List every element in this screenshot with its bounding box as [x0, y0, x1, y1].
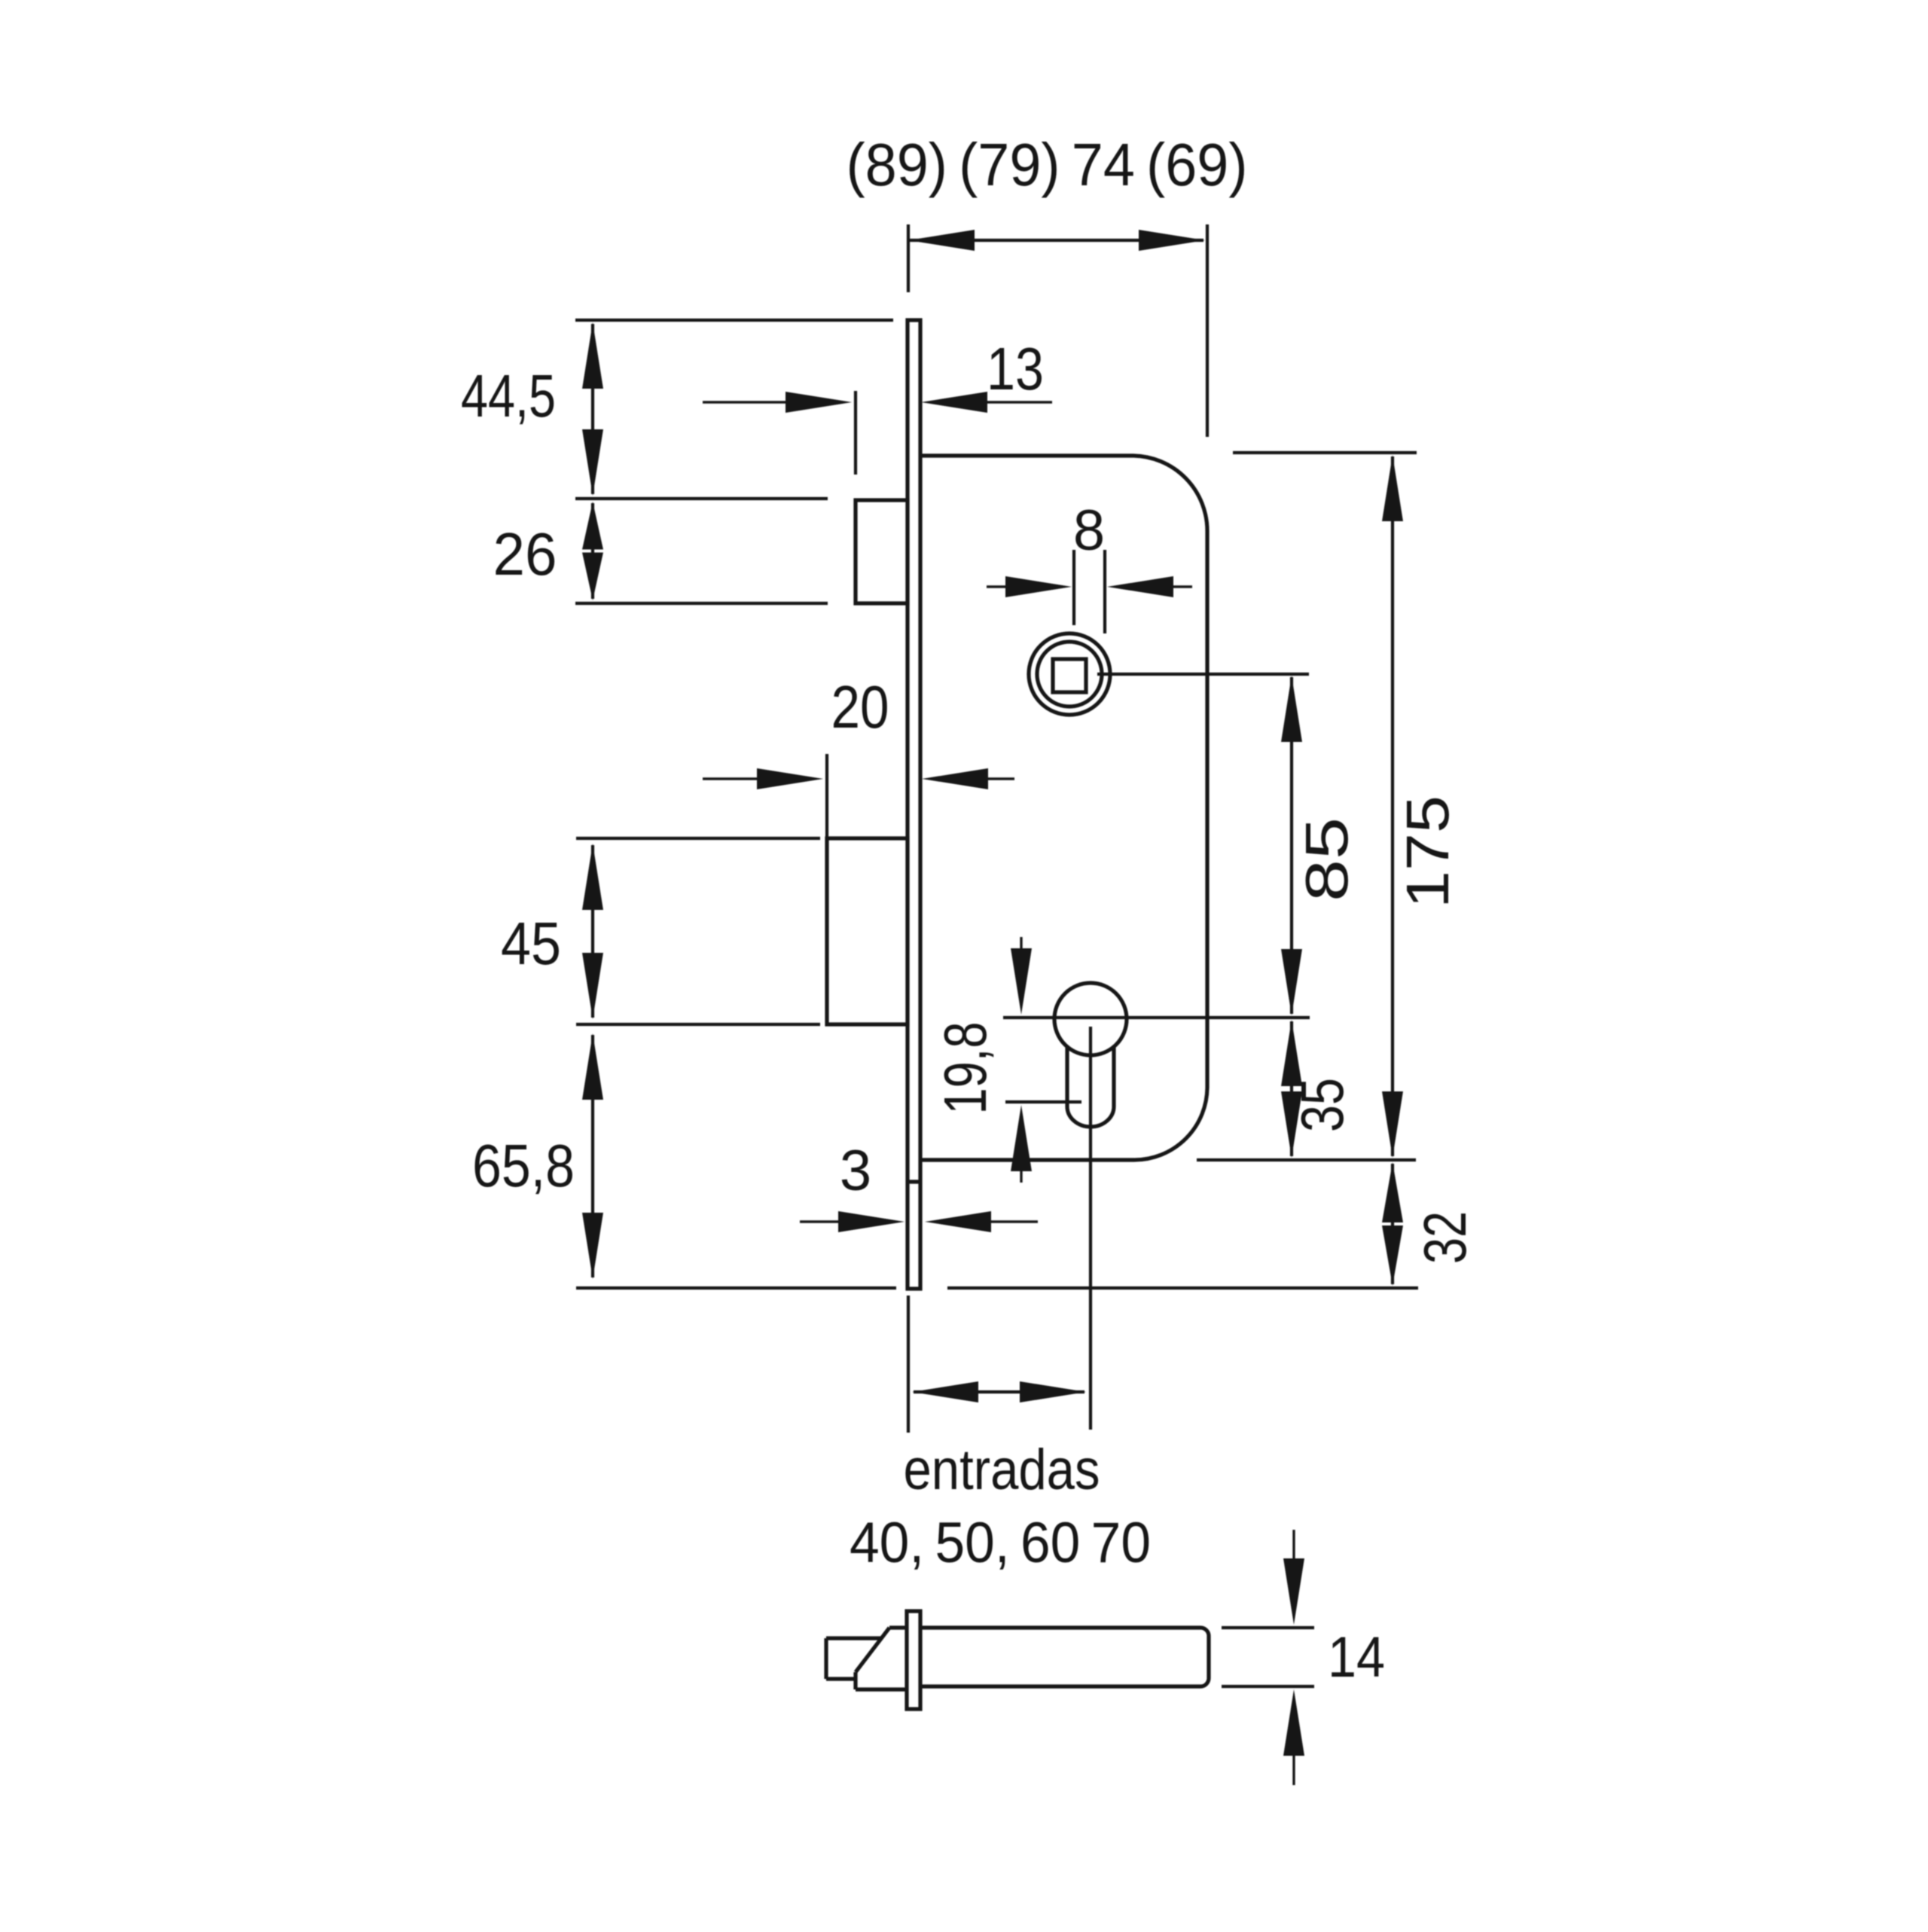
dim 35 [1290, 1021, 1293, 1156]
dim 8 left arrow [1005, 576, 1072, 597]
dim line 74 (89/79/69) [910, 239, 1203, 242]
ext line: deadbolt bottom [576, 1023, 820, 1026]
svg-text:8: 8 [1073, 499, 1105, 563]
ext line: body bottom right (175/35/32) [1197, 1158, 1416, 1161]
ext line: 74-dim right / body right [1206, 224, 1209, 437]
latch bolt bar side view [920, 1628, 1209, 1686]
svg-text:14: 14 [1328, 1625, 1385, 1689]
svg-text:20: 20 [831, 673, 889, 740]
dim 32 [1391, 1164, 1394, 1284]
dim 3 right arrow [925, 1211, 991, 1232]
centerline: cylinder horizontal [1003, 1016, 1310, 1019]
dim 3 left arrow [838, 1211, 905, 1232]
dim 175 [1391, 456, 1394, 1156]
dim 45 [591, 845, 594, 1018]
latch head bevel diagonal [856, 1628, 889, 1672]
euro cylinder hole circle [1054, 983, 1127, 1055]
dim 13 left arrow [786, 392, 852, 413]
svg-text:85: 85 [1293, 817, 1360, 902]
tick: 8-dim right [1103, 550, 1106, 633]
svg-text:32: 32 [1411, 1211, 1478, 1264]
ext line: latch top [575, 497, 828, 500]
dim 8 right arrow [1107, 576, 1173, 597]
dim 14 bottom arrow (up) [1283, 1689, 1304, 1756]
tick: 74-dim left [907, 224, 910, 292]
ext line: deadbolt face (20) [825, 754, 828, 838]
svg-text:13: 13 [987, 335, 1044, 402]
dim 20 left arrow [757, 768, 823, 789]
dim 26 [591, 503, 594, 599]
ext line: faceplate bottom (left part) [576, 1286, 896, 1290]
ext line: latch bottom [575, 602, 828, 605]
centerline: cylinder vertical down to backset dim [1089, 1027, 1092, 1430]
svg-text:3: 3 [840, 1139, 871, 1203]
lock faceplate (front plate), 3mm thick [908, 320, 920, 1289]
tick: 8-dim left [1072, 550, 1075, 625]
svg-text:entradas: entradas [904, 1438, 1100, 1502]
latch head front vertical [853, 1672, 857, 1689]
dim 19,8 bottom arrow (up) [1011, 1105, 1032, 1171]
dim 19,8 top arrow (down) [1011, 948, 1032, 1015]
ext line: 19,8 bottom [1005, 1100, 1081, 1103]
ext line: latch face (13) [854, 391, 857, 475]
latch head box bottom [826, 1677, 856, 1680]
latch head box top [826, 1636, 881, 1640]
ext line: faceplate top [575, 319, 893, 322]
svg-text:26: 26 [493, 520, 557, 588]
handle hub inner circle [1037, 642, 1102, 707]
svg-text:35: 35 [1289, 1078, 1356, 1132]
svg-text:40, 50, 60 70: 40, 50, 60 70 [850, 1511, 1151, 1575]
dim 85 [1290, 677, 1293, 1014]
svg-text:175: 175 [1394, 795, 1461, 908]
dim 65,8 [591, 1035, 594, 1277]
ext line: 14-dim bottom [1222, 1685, 1314, 1688]
ext line: backset left (faceplate) [907, 1296, 910, 1433]
centerline: spindle hub to 85-dim [1097, 673, 1309, 676]
svg-text:44,5: 44,5 [461, 362, 556, 429]
deadbolt protruding 20mm [827, 838, 908, 1024]
ext line: 14-dim top [1222, 1626, 1314, 1629]
svg-text:19,8: 19,8 [932, 1022, 999, 1115]
8mm square spindle hole [1053, 659, 1086, 692]
handle hub outer circle [1029, 633, 1110, 715]
svg-text:(89) (79) 74 (69): (89) (79) 74 (69) [847, 131, 1248, 198]
ext line: deadbolt top [576, 837, 820, 840]
latch head bottom segment [856, 1687, 907, 1691]
dim 44,5 [591, 324, 594, 494]
svg-text:45: 45 [501, 910, 561, 977]
dim backset (entradas) [914, 1390, 1084, 1393]
dim 13 right arrow [921, 392, 987, 413]
latch bolt protruding 13mm [856, 500, 908, 603]
lock case body outline (rounded right corners) [920, 456, 1207, 1160]
ext line: faceplate bottom (right part) [947, 1286, 1418, 1290]
ext line: body top right (175) [1233, 451, 1417, 454]
svg-text:65,8: 65,8 [472, 1132, 575, 1199]
dim 20 right arrow [922, 768, 988, 789]
dim 14 top arrow (down) [1283, 1558, 1304, 1625]
faceplate cross-section side view [907, 1611, 920, 1709]
faceplate joint tick at body bottom [908, 1180, 920, 1183]
euro cylinder neck with round bottom [1067, 1045, 1114, 1127]
latch head top segment [889, 1625, 907, 1629]
latch head box left [824, 1638, 828, 1679]
